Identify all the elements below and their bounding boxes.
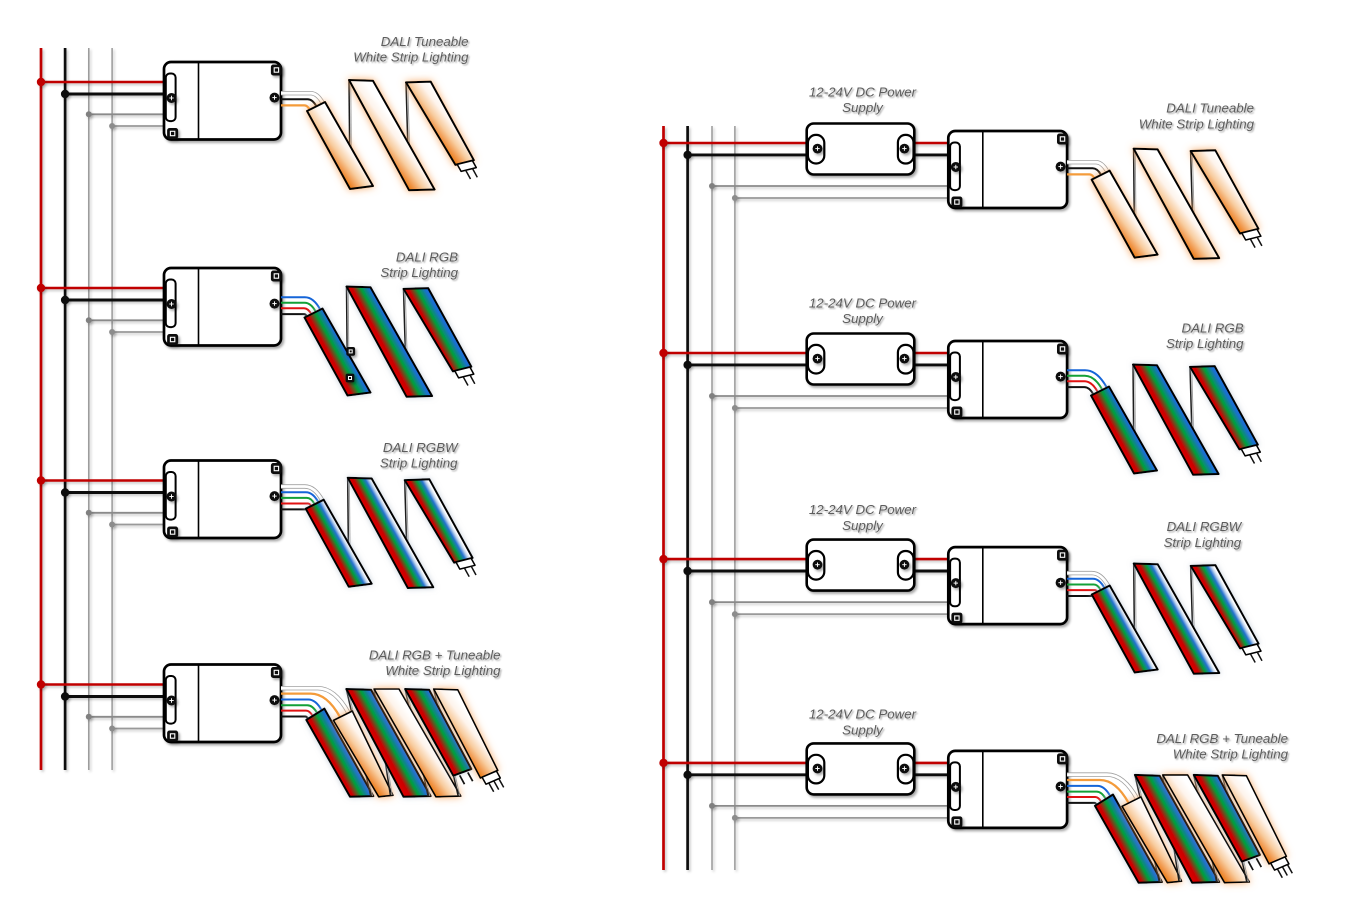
node: 0V feed (black) tap, right row 4 — [683, 771, 691, 779]
wire: driver U2 output leads to LED strip — [281, 297, 320, 316]
wire: DALI DA- drop (grey) to driver U1 — [112, 125, 165, 127]
wire: DALI DA+ bus (grey) left — [88, 48, 90, 770]
wire: +V feed (red) bus to power supply PS1 — [664, 142, 811, 145]
svg-text:White Strip Lighting: White Strip Lighting — [1139, 116, 1255, 131]
node: DALI DA+ drop (grey) tap, left row 1 — [86, 111, 92, 117]
wire: DALI DA+ drop (grey) to driver U2 — [89, 319, 166, 321]
power supply PS2 (12-24V DC) — [807, 334, 915, 385]
LED strip LS4 (RGB + tuneable white) — [306, 689, 503, 797]
svg-text:DALI Tuneable: DALI Tuneable — [1166, 101, 1254, 116]
DALI LED driver U8 — [948, 751, 1068, 828]
wire: 0V feed (black) to driver U4 — [65, 695, 165, 698]
svg-text:12-24V DC Power: 12-24V DC Power — [809, 707, 917, 722]
DALI LED driver U5 — [948, 131, 1068, 208]
wire: +V feed (red) to driver U4 — [41, 683, 166, 686]
LED strip LS3 (RGBW) — [306, 478, 476, 588]
node: 0V feed (black) tap, right row 3 — [683, 567, 691, 575]
LED strip LS6 (RGB) — [1091, 365, 1261, 475]
node: DALI DA- drop (grey) tap, right row 3 — [732, 611, 738, 617]
label: DALI RGB Strip Lighting — [1166, 321, 1244, 352]
DALI LED driver U6 — [948, 341, 1068, 418]
DALI LED driver U4 — [164, 665, 282, 743]
wire: mains/DC +V bus (red) right — [662, 126, 665, 870]
wire: DALI DA+ bus (grey) right — [711, 126, 713, 870]
wire: 12-24V DC 0V (black) PS2 to driver U6 — [913, 363, 950, 366]
power supply PS4 (12-24V DC) — [807, 743, 915, 794]
node: DALI DA- drop (grey) tap, left row 4 — [109, 726, 115, 732]
node: +V feed (red) tap, right row 2 — [659, 349, 667, 357]
svg-text:Strip Lighting: Strip Lighting — [380, 265, 458, 280]
wire: DALI DA- drop (grey) to driver U5 — [735, 197, 950, 199]
svg-text:Supply: Supply — [842, 722, 884, 737]
wire: 12-24V DC +V (red) PS1 to driver U5 — [913, 142, 950, 145]
label: DALI RGBW Strip Lighting — [380, 440, 459, 471]
wire: 0V feed (black) to driver U2 — [65, 299, 165, 302]
wire: DALI DA+ drop (grey) to driver U7 — [712, 601, 950, 603]
node: DALI DA+ drop (grey) tap, left row 4 — [86, 714, 92, 720]
mounting screws on strip LS2 — [346, 347, 355, 382]
node: DALI DA- drop (grey) tap, right row 4 — [732, 815, 738, 821]
svg-text:12-24V DC Power: 12-24V DC Power — [809, 85, 917, 100]
wire: DALI DA- drop (grey) to driver U2 — [112, 331, 165, 333]
node: DALI DA+ drop (grey) tap, right row 1 — [709, 183, 715, 189]
wire: +V feed (red) to driver U3 — [41, 479, 166, 482]
svg-text:Supply: Supply — [842, 100, 884, 115]
svg-text:Strip Lighting: Strip Lighting — [1164, 535, 1242, 550]
DALI LED driver U7 — [948, 547, 1068, 624]
wire: DALI DA- drop (grey) to driver U3 — [112, 524, 165, 526]
LED strip LS2 (RGB) — [305, 287, 475, 397]
node: 0V feed (black) tap, left row 3 — [61, 488, 69, 496]
LED strip LS8 (RGB + tuneable white) — [1095, 775, 1292, 883]
wire: 0V feed (black) to driver U3 — [65, 491, 165, 494]
node: +V feed (red) tap, left row 4 — [37, 680, 45, 688]
svg-text:DALI RGB: DALI RGB — [1182, 321, 1244, 336]
wire: driver U1 output leads to LED strip — [281, 93, 323, 110]
label: 12-24V DC Power Supply — [809, 296, 917, 327]
wire: driver U6 output leads to LED strip — [1067, 370, 1107, 394]
svg-text:12-24V DC Power: 12-24V DC Power — [809, 502, 917, 517]
wire: DALI DA- drop (grey) to driver U4 — [112, 728, 165, 730]
svg-text:DALI RGB: DALI RGB — [396, 249, 458, 264]
wire: 0V feed (black) bus to power supply PS4 — [688, 773, 811, 776]
svg-text:Strip Lighting: Strip Lighting — [380, 456, 458, 471]
label: DALI RGB Strip Lighting — [380, 249, 458, 280]
node: +V feed (red) tap, right row 4 — [659, 759, 667, 767]
node: 0V feed (black) tap, left row 1 — [61, 90, 69, 98]
wire: mains/DC +V bus (red) left — [40, 48, 43, 770]
label: 12-24V DC Power Supply — [809, 502, 917, 533]
node: +V feed (red) tap, right row 3 — [659, 555, 667, 563]
svg-text:12-24V DC Power: 12-24V DC Power — [809, 296, 917, 311]
DALI LED driver U2 — [164, 268, 282, 346]
svg-text:White Strip Lighting: White Strip Lighting — [1173, 746, 1289, 761]
wire: 12-24V DC +V (red) PS3 to driver U7 — [913, 558, 950, 561]
wire: +V feed (red) bus to power supply PS3 — [664, 558, 811, 561]
wire: 12-24V DC 0V (black) PS4 to driver U8 — [913, 773, 950, 776]
wire: +V feed (red) to driver U1 — [41, 81, 166, 84]
svg-text:White Strip Lighting: White Strip Lighting — [353, 49, 469, 64]
svg-text:DALI RGB + Tuneable: DALI RGB + Tuneable — [1156, 731, 1288, 746]
wire: driver U5 output leads to LED strip — [1067, 162, 1107, 178]
DALI LED driver U3 — [164, 461, 282, 539]
wire: DALI DA- bus (grey) left — [111, 48, 113, 770]
LED strip LS7 (RGBW) — [1092, 564, 1262, 674]
wire: DALI DA+ drop (grey) to driver U3 — [89, 512, 166, 514]
label: 12-24V DC Power Supply — [809, 85, 917, 116]
svg-text:Strip Lighting: Strip Lighting — [1166, 336, 1244, 351]
wire: DALI DA+ drop (grey) to driver U5 — [712, 185, 950, 187]
wire: 0V/neutral bus (black) left — [64, 48, 67, 770]
LED strip LS5 (tuneable white) — [1092, 149, 1262, 259]
node: 0V feed (black) tap, left row 4 — [61, 692, 69, 700]
node: 0V feed (black) tap, left row 2 — [61, 296, 69, 304]
power supply PS3 (12-24V DC) — [807, 540, 915, 591]
wire: 0V feed (black) bus to power supply PS3 — [688, 570, 811, 573]
node: DALI DA- drop (grey) tap, right row 1 — [732, 195, 738, 201]
wire: 0V feed (black) bus to power supply PS2 — [688, 363, 811, 366]
wire: 12-24V DC +V (red) PS2 to driver U6 — [913, 352, 950, 355]
svg-text:Supply: Supply — [842, 518, 884, 533]
svg-text:DALI Tuneable: DALI Tuneable — [381, 34, 469, 49]
wire: 12-24V DC 0V (black) PS1 to driver U5 — [913, 153, 950, 156]
label: DALI RGB + Tuneable White Strip Lighting — [1156, 731, 1288, 762]
node: DALI DA+ drop (grey) tap, right row 2 — [709, 393, 715, 399]
power supply PS1 (12-24V DC) — [807, 124, 915, 175]
node: DALI DA+ drop (grey) tap, right row 4 — [709, 803, 715, 809]
wire: DALI DA+ drop (grey) to driver U4 — [89, 716, 166, 718]
node: DALI DA+ drop (grey) tap, right row 3 — [709, 599, 715, 605]
wire: DALI DA+ drop (grey) to driver U6 — [712, 395, 950, 397]
wire: 0V feed (black) bus to power supply PS1 — [688, 153, 811, 156]
svg-text:DALI RGBW: DALI RGBW — [383, 440, 459, 455]
DALI LED driver U1 — [164, 62, 282, 140]
wire: 12-24V DC +V (red) PS4 to driver U8 — [913, 762, 950, 765]
wire: driver U7 output leads to LED strip — [1067, 573, 1108, 596]
node: +V feed (red) tap, left row 2 — [37, 284, 45, 292]
wire: DALI DA+ drop (grey) to driver U8 — [712, 805, 950, 807]
svg-text:DALI RGB + Tuneable: DALI RGB + Tuneable — [369, 647, 501, 662]
wire: DALI DA+ drop (grey) to driver U1 — [89, 113, 166, 115]
label: DALI Tuneable White Strip Lighting — [353, 34, 469, 65]
node: 0V feed (black) tap, right row 2 — [683, 361, 691, 369]
node: DALI DA- drop (grey) tap, left row 2 — [109, 329, 115, 335]
node: DALI DA- drop (grey) tap, right row 2 — [732, 405, 738, 411]
node: DALI DA+ drop (grey) tap, left row 2 — [86, 317, 92, 323]
label: DALI RGBW Strip Lighting — [1164, 519, 1243, 550]
wire: +V feed (red) bus to power supply PS2 — [664, 352, 811, 355]
node: 0V feed (black) tap, right row 1 — [683, 151, 691, 159]
svg-text:White Strip Lighting: White Strip Lighting — [385, 663, 501, 678]
wire: DALI DA- drop (grey) to driver U8 — [735, 817, 950, 819]
node: +V feed (red) tap, left row 3 — [37, 476, 45, 484]
wire: driver U4 output leads to LED strip — [281, 688, 349, 719]
node: +V feed (red) tap, left row 1 — [37, 78, 45, 86]
LED strip LS1 (tuneable white) — [307, 80, 477, 190]
wire: DALI DA- drop (grey) to driver U6 — [735, 407, 950, 409]
wire: driver U8 output leads to LED strip — [1067, 775, 1137, 805]
wire: +V feed (red) to driver U2 — [41, 287, 166, 290]
wire: 12-24V DC 0V (black) PS3 to driver U7 — [913, 570, 950, 573]
label: DALI RGB + Tuneable White Strip Lighting — [369, 647, 501, 678]
wire: +V feed (red) bus to power supply PS4 — [664, 762, 811, 765]
node: DALI DA+ drop (grey) tap, left row 3 — [86, 510, 92, 516]
wire: 0V/neutral bus (black) right — [686, 126, 689, 870]
label: DALI Tuneable White Strip Lighting — [1139, 101, 1255, 132]
wire: driver U3 output leads to LED strip — [281, 487, 322, 510]
node: DALI DA- drop (grey) tap, left row 3 — [109, 522, 115, 528]
node: +V feed (red) tap, right row 1 — [659, 139, 667, 147]
wire: 0V feed (black) to driver U1 — [65, 93, 165, 96]
wire: DALI DA- bus (grey) right — [734, 126, 736, 870]
svg-text:DALI RGBW: DALI RGBW — [1167, 519, 1243, 534]
label: 12-24V DC Power Supply — [809, 707, 917, 738]
node: DALI DA- drop (grey) tap, left row 1 — [109, 123, 115, 129]
svg-text:Supply: Supply — [842, 311, 884, 326]
wire: DALI DA- drop (grey) to driver U7 — [735, 613, 950, 615]
